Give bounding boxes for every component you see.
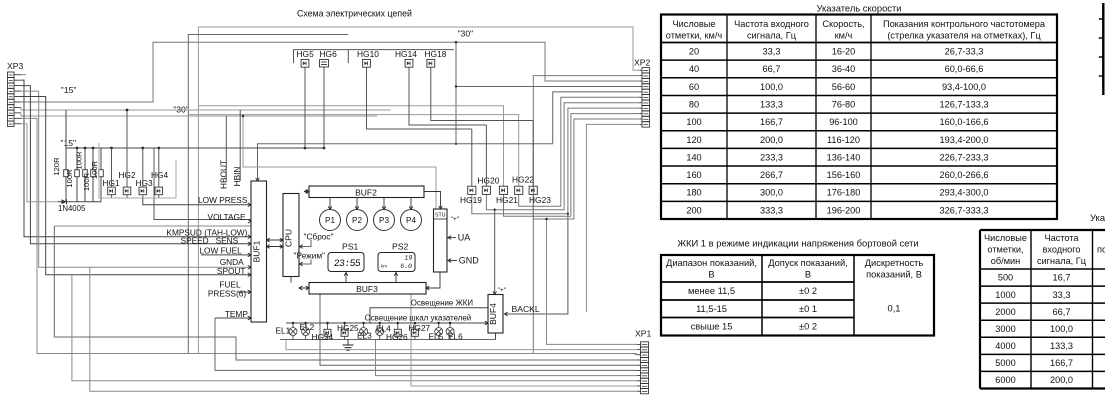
svg-text:HG19: HG19 bbox=[460, 195, 482, 205]
wire HG14 down bbox=[409, 67, 486, 125]
wire bus y42 (XP3 pin6 via x153 to XP2 pin3) bbox=[21, 42, 640, 102]
wire XP3 pin10 to diode rail bbox=[21, 124, 58, 202]
svg-text:HG10: HG10 bbox=[357, 49, 379, 59]
svg-text:126,7-133,3: 126,7-133,3 bbox=[939, 99, 988, 109]
svg-text:PS2: PS2 bbox=[392, 242, 408, 252]
svg-text:Диапазон показаний,: Диапазон показаний, bbox=[666, 258, 757, 268]
wire bus y114 to HG22 bbox=[188, 115, 518, 187]
svg-text:166,7: 166,7 bbox=[1050, 358, 1073, 368]
wire XP2 pin7 to HG20 bottom bbox=[486, 103, 640, 210]
wire EL1 stubs bbox=[292, 323, 294, 327]
table2 grid bbox=[661, 255, 934, 336]
arrow into BUF1 top bbox=[256, 178, 260, 181]
svg-text:отметки,: отметки, bbox=[987, 245, 1023, 255]
connector XP3 bbox=[8, 72, 15, 77]
wire LOW FUEL bbox=[201, 254, 251, 256]
svg-text:"15": "15" bbox=[61, 85, 77, 95]
wire LOW PRESS bbox=[143, 198, 251, 205]
junction dot BACKL nest bbox=[567, 213, 569, 215]
led HG26 bbox=[394, 329, 401, 336]
junction dot bbox=[92, 147, 95, 150]
svg-text:100R: 100R bbox=[75, 151, 84, 170]
svg-text:HG24: HG24 bbox=[312, 332, 334, 342]
junction dot 30 wire bbox=[455, 41, 458, 44]
resistor 100R d bbox=[100, 148, 102, 170]
wire diode rail bbox=[58, 201, 101, 203]
svg-text:(стрелка указателя на отметках: (стрелка указателя на отметках), Гц bbox=[887, 31, 1041, 41]
svg-text:отметки, км/ч: отметки, км/ч bbox=[666, 31, 723, 41]
svg-text:"+": "+" bbox=[498, 287, 507, 294]
wire FUEL PRESS bbox=[238, 291, 251, 293]
svg-text:"+": "+" bbox=[451, 216, 460, 223]
svg-text:23:55: 23:55 bbox=[333, 258, 361, 269]
wire BUF1-CPU bus b bbox=[267, 246, 284, 248]
wire BUF4 feed bbox=[494, 210, 496, 295]
svg-text:P4: P4 bbox=[406, 216, 416, 225]
svg-text:120R: 120R bbox=[52, 157, 61, 176]
arrow into BUF1 bbox=[248, 242, 251, 246]
svg-text:93,4-100,0: 93,4-100,0 bbox=[942, 82, 986, 92]
wire top lamps header bbox=[294, 50, 454, 64]
wire HG6 down bbox=[323, 67, 325, 148]
wire lamp bottom rail bbox=[280, 339, 496, 341]
led HG22 bbox=[515, 186, 523, 194]
svg-text:200: 200 bbox=[686, 205, 701, 215]
svg-text:80: 80 bbox=[689, 99, 699, 109]
svg-text:SPEED SENS: SPEED SENS bbox=[181, 236, 239, 246]
svg-text:133,3: 133,3 bbox=[1050, 341, 1073, 351]
wire HG4 bottom bbox=[158, 195, 160, 198]
svg-text:Скорость,: Скорость, bbox=[822, 19, 864, 29]
wire XP3 pin9 bottom bus y353 bbox=[21, 118, 637, 353]
wire 30 vertical bbox=[455, 42, 457, 143]
wire bus y105 to HG21 bbox=[198, 106, 503, 186]
wire HG1 top bbox=[111, 148, 113, 187]
svg-text:20: 20 bbox=[689, 47, 699, 57]
svg-text:166,7: 166,7 bbox=[760, 117, 783, 127]
svg-text:"Режим": "Режим" bbox=[294, 251, 326, 261]
wire x90 to bus y391 bbox=[90, 267, 637, 391]
svg-text:3000: 3000 bbox=[995, 324, 1015, 334]
svg-text:HG22: HG22 bbox=[512, 175, 534, 185]
svg-text:P3: P3 bbox=[379, 216, 389, 225]
junction dot bbox=[76, 147, 79, 150]
wire CPU to BUF3 bbox=[290, 277, 292, 283]
wire TEMP vert to bus y370 bbox=[215, 318, 637, 370]
wire HG26 stubs bbox=[397, 323, 399, 329]
wire Режим arrow bbox=[300, 260, 312, 265]
wire HG23 up bbox=[532, 121, 534, 187]
wire XP2 pin10 to HG23 bottom bbox=[533, 119, 640, 219]
diode 1N4005 bbox=[62, 199, 67, 204]
wire HG10 down bbox=[367, 67, 472, 129]
svg-text:Освещение шкал указателей: Освещение шкал указателей bbox=[365, 313, 472, 322]
wire XP2 pin6 to HG22 bottom bbox=[519, 97, 640, 206]
svg-text:136-140: 136-140 bbox=[827, 152, 861, 162]
svg-text:"15": "15" bbox=[60, 138, 76, 148]
wire EL2 stubs bbox=[305, 323, 307, 327]
svg-text:BUF1: BUF1 bbox=[252, 240, 262, 262]
junction dot 30 vertical at BUF1 feed bbox=[455, 143, 457, 145]
svg-text:"30": "30" bbox=[458, 29, 474, 39]
svg-text:HG21: HG21 bbox=[496, 195, 518, 205]
svg-text:BUF4: BUF4 bbox=[488, 303, 498, 325]
arrow into BUF1 bbox=[248, 203, 251, 207]
wire lamp bottom rail left to bus y349 bbox=[286, 340, 637, 350]
svg-text:Допуск показаний,: Допуск показаний, bbox=[768, 258, 848, 268]
svg-text:233,3: 233,3 bbox=[760, 152, 783, 162]
svg-text:км/ч: км/ч bbox=[835, 31, 853, 41]
lamp HG10 bbox=[363, 59, 371, 67]
svg-text:EL5: EL5 bbox=[429, 332, 444, 342]
svg-text:100,0: 100,0 bbox=[760, 82, 783, 92]
svg-text:176-180: 176-180 bbox=[827, 188, 861, 198]
svg-text:менее 11,5: менее 11,5 bbox=[688, 286, 735, 296]
svg-text:76-80: 76-80 bbox=[832, 99, 856, 109]
lamp HG3 bbox=[139, 187, 147, 195]
svg-text:26,7-33,3: 26,7-33,3 bbox=[945, 47, 984, 57]
svg-text:2000: 2000 bbox=[995, 307, 1015, 317]
indicator P4 bbox=[401, 210, 422, 231]
lamp HG2 bbox=[123, 187, 131, 195]
svg-text:VOLTAGE: VOLTAGE bbox=[208, 212, 246, 222]
svg-text:HG14: HG14 bbox=[395, 49, 417, 59]
led HG23 bbox=[529, 186, 537, 194]
wire top lamps header right bbox=[347, 50, 349, 64]
svg-text:P1: P1 bbox=[325, 216, 335, 225]
wire HG4 top bbox=[158, 148, 160, 187]
svg-text:11,5-15: 11,5-15 bbox=[696, 304, 727, 314]
svg-text:EL1: EL1 bbox=[276, 326, 291, 336]
wire HG27 stubs bbox=[414, 323, 416, 329]
display PS2 bbox=[378, 253, 415, 272]
led HG19 bbox=[468, 186, 476, 194]
wire BUF2 to P2 bbox=[356, 198, 358, 210]
led HG24 bbox=[324, 329, 331, 336]
wire SPEED from XP3 pin3 bbox=[21, 86, 251, 244]
table1 grid bbox=[661, 15, 1057, 220]
wire x72 to bus y381 bbox=[72, 275, 637, 381]
svg-text:6.0: 6.0 bbox=[400, 263, 413, 270]
svg-text:Схема электрических цепей: Схема электрических цепей bbox=[297, 9, 412, 19]
wire EL5 stubs bbox=[438, 323, 440, 327]
svg-text:4000: 4000 bbox=[995, 341, 1015, 351]
resistor 120R bbox=[65, 148, 67, 170]
junction dot bbox=[323, 147, 326, 150]
svg-text:Числовые: Числовые bbox=[672, 19, 715, 29]
wire SPOUT from XP3 pin5 bbox=[21, 97, 251, 275]
wire HG25 stubs bbox=[344, 323, 346, 329]
wire VOLTAGE from 15 bus bbox=[154, 148, 251, 220]
svg-text:BACKL: BACKL bbox=[512, 304, 540, 314]
svg-text:60,0-66,6: 60,0-66,6 bbox=[945, 64, 984, 74]
svg-text:сигнала, Гц: сигнала, Гц bbox=[747, 31, 797, 41]
svg-text:100: 100 bbox=[686, 117, 701, 127]
block BUF4 bbox=[488, 295, 503, 334]
wire HBOUT bbox=[225, 116, 227, 181]
block STU bbox=[434, 209, 448, 272]
svg-text:193,4-200,0: 193,4-200,0 bbox=[939, 135, 988, 145]
wire bottom rail to bus y375 bbox=[376, 340, 638, 376]
svg-text:56-60: 56-60 bbox=[832, 82, 856, 92]
svg-text:100R: 100R bbox=[90, 160, 99, 179]
wire BUF3 to PS1 bbox=[345, 272, 347, 283]
wire XP2 pin4 to 30 vertical bbox=[456, 85, 640, 87]
arrow into BUF1 bbox=[248, 316, 251, 320]
svg-text:96-100: 96-100 bbox=[829, 117, 858, 127]
wire Освещение ЖКИ bbox=[370, 308, 488, 323]
svg-text:Ука: Ука bbox=[1090, 212, 1105, 223]
junction dot bbox=[110, 147, 113, 150]
svg-text:36-40: 36-40 bbox=[832, 64, 856, 74]
lamp EL3 bbox=[360, 328, 368, 336]
wire BUF1-CPU bus a bbox=[267, 239, 284, 241]
svg-text:156-160: 156-160 bbox=[827, 170, 861, 180]
svg-text:116-120: 116-120 bbox=[827, 135, 860, 145]
wire XP2 pin2 long to XP1 area bbox=[533, 76, 640, 354]
wire XP2 pin8 to HG19 bottom bbox=[472, 108, 640, 214]
svg-text:66,7: 66,7 bbox=[1053, 307, 1071, 317]
svg-text:0,1: 0,1 bbox=[888, 304, 901, 314]
svg-text:260,0-266,6: 260,0-266,6 bbox=[939, 170, 988, 180]
wire EL6 stubs bbox=[449, 323, 451, 327]
wire EL4 stubs bbox=[379, 323, 381, 327]
svg-text:293,4-300,0: 293,4-300,0 bbox=[939, 188, 988, 198]
wire XP1 pin3 stub bbox=[633, 354, 637, 355]
table4 edge sliver bbox=[1102, 3, 1104, 95]
svg-text:об/мин: об/мин bbox=[991, 256, 1020, 266]
svg-text:"Сброс": "Сброс" bbox=[304, 232, 334, 242]
wire BUF2 to P1 bbox=[329, 198, 331, 210]
table3 grid bbox=[979, 230, 981, 389]
svg-text:5000: 5000 bbox=[995, 358, 1015, 368]
connector XP1 bbox=[641, 342, 649, 347]
arrow BACKL into BUF4 bbox=[504, 312, 507, 316]
resistor 100R c bbox=[92, 148, 94, 170]
svg-text:BUF2: BUF2 bbox=[355, 188, 377, 198]
svg-text:по: по bbox=[1097, 245, 1105, 255]
svg-text:16,7: 16,7 bbox=[1053, 273, 1071, 283]
wire BUF3 right to bus y386 bbox=[411, 294, 637, 386]
svg-text:BUF3: BUF3 bbox=[356, 284, 378, 294]
svg-text:свыше 15: свыше 15 bbox=[691, 322, 733, 332]
wire GND stub bbox=[447, 260, 458, 262]
lamp HG5 bbox=[301, 59, 309, 67]
svg-text:сигнала, Гц: сигнала, Гц bbox=[1037, 256, 1087, 266]
wire BUF4 to bottom rail bbox=[495, 333, 497, 340]
svg-text:333,3: 333,3 bbox=[760, 205, 783, 215]
svg-text:160,0-166,6: 160,0-166,6 bbox=[939, 117, 988, 127]
resistor 100R a bbox=[76, 148, 78, 170]
svg-text:226,7-233,3: 226,7-233,3 bbox=[939, 152, 988, 162]
wire nest to XP1 pin1 bbox=[547, 219, 638, 344]
svg-text:HG18: HG18 bbox=[425, 49, 447, 59]
junction dot bbox=[141, 147, 144, 150]
svg-text:CPU: CPU bbox=[284, 229, 294, 247]
svg-text:66,7: 66,7 bbox=[763, 64, 781, 74]
svg-text:ЖКИ 1 в режиме индикации напря: ЖКИ 1 в режиме индикации напряжения борт… bbox=[677, 238, 918, 249]
svg-text:133,3: 133,3 bbox=[760, 99, 783, 109]
svg-text:LOW FUEL: LOW FUEL bbox=[199, 246, 242, 256]
junction dot bbox=[304, 147, 307, 150]
wire bus y116 from XP3 bbox=[21, 113, 377, 116]
svg-text:Частота: Частота bbox=[1044, 233, 1079, 243]
wire XP2 pin9 to HG21 bottom bbox=[504, 114, 641, 217]
wire GNDA from XP3 pin4 bbox=[21, 91, 251, 267]
svg-text:km: km bbox=[381, 264, 387, 269]
svg-text:В: В bbox=[805, 270, 811, 280]
svg-text:±0 2: ±0 2 bbox=[799, 322, 817, 332]
lamp HG14 bbox=[405, 59, 413, 67]
arrow into BUF1 bbox=[248, 220, 251, 224]
wire enclosure bottom bbox=[99, 143, 176, 198]
led HG27 bbox=[411, 329, 418, 336]
wire HG18 down bbox=[431, 67, 533, 120]
svg-text:Освещение ЖКИ: Освещение ЖКИ bbox=[411, 299, 474, 308]
arrow into BUF1 bbox=[248, 265, 251, 269]
wire bus y110 from XP3 bbox=[21, 107, 391, 110]
svg-text:140: 140 bbox=[686, 152, 701, 162]
wire Сброс arrow bbox=[300, 240, 312, 247]
wire BUF3 to PS2 bbox=[395, 272, 397, 283]
svg-text:160: 160 bbox=[686, 170, 701, 180]
display PS1 bbox=[328, 253, 364, 272]
junction dot BUF4 feed bbox=[494, 209, 496, 211]
svg-text:326,7-333,3: 326,7-333,3 bbox=[939, 205, 988, 215]
svg-text:Показания контрольного частото: Показания контрольного частотомера bbox=[883, 19, 1046, 29]
ground symbol bbox=[347, 340, 349, 346]
svg-text:XP1: XP1 bbox=[635, 329, 651, 339]
connector XP2 bbox=[642, 68, 650, 73]
arrow into BUF1 bbox=[248, 253, 251, 257]
block BUF2 bbox=[309, 186, 424, 198]
wire UA stub bbox=[447, 237, 457, 239]
block BUF3 bbox=[309, 283, 426, 295]
led HG21 bbox=[499, 186, 507, 194]
svg-text:40: 40 bbox=[689, 64, 699, 74]
lamp EL4 bbox=[376, 328, 384, 336]
lamp HG4 bbox=[155, 187, 163, 195]
svg-text:100,0: 100,0 bbox=[1050, 324, 1073, 334]
svg-text:GND: GND bbox=[459, 256, 480, 266]
lamp EL6 bbox=[446, 328, 454, 336]
lamp HG6 bbox=[320, 60, 329, 68]
svg-text:SPOUT: SPOUT bbox=[217, 266, 246, 276]
wire BUF2 to P3 bbox=[383, 198, 385, 210]
svg-text:266,7: 266,7 bbox=[760, 170, 783, 180]
wire XP2 pin11 stub down bbox=[586, 124, 640, 312]
svg-text:XP3: XP3 bbox=[7, 61, 23, 71]
wire STU to BUF3 bbox=[426, 272, 440, 288]
svg-text:входного: входного bbox=[1042, 245, 1080, 255]
wire BACKL from nest to BUF4 bbox=[504, 214, 568, 314]
svg-text:196-200: 196-200 bbox=[827, 205, 861, 215]
wire HG5 down bbox=[304, 67, 306, 148]
svg-text:±0 1: ±0 1 bbox=[799, 304, 817, 314]
lamp EL5 bbox=[435, 328, 443, 336]
svg-text:120: 120 bbox=[686, 135, 701, 145]
wire BUF2 to STU bbox=[424, 192, 441, 210]
svg-text:XP2: XP2 bbox=[634, 58, 650, 68]
svg-text:HG4: HG4 bbox=[151, 170, 168, 180]
svg-text:200,0: 200,0 bbox=[1050, 375, 1073, 385]
svg-text:UA: UA bbox=[458, 233, 471, 243]
svg-text:Указатель скорости: Указатель скорости bbox=[816, 3, 901, 14]
svg-text:В: В bbox=[708, 270, 714, 280]
wire 15 bus bbox=[66, 110, 324, 148]
svg-text:33,3: 33,3 bbox=[763, 47, 781, 57]
wire HG1 bottom bbox=[111, 195, 113, 198]
junction dot HG2 bbox=[126, 109, 129, 112]
arrow into BUF1 bbox=[248, 290, 251, 294]
wire HG20 up bbox=[485, 125, 487, 186]
wire bus 30 top y27 (x198 to XP2 pin1) bbox=[198, 27, 640, 354]
svg-text:100R: 100R bbox=[65, 169, 74, 188]
svg-text:HG6: HG6 bbox=[320, 49, 338, 59]
wire KMPSUD from XP3 pin2 bbox=[21, 80, 251, 237]
svg-text:6000: 6000 bbox=[995, 375, 1015, 385]
svg-text:LOW PRESS: LOW PRESS bbox=[198, 195, 248, 205]
wire XP3 pin1 stub bbox=[21, 74, 26, 76]
svg-text:200,0: 200,0 bbox=[760, 135, 783, 145]
svg-text:300,0: 300,0 bbox=[760, 188, 783, 198]
svg-text:1N4005: 1N4005 bbox=[58, 204, 86, 213]
wire x54 jog bus y360 bbox=[54, 226, 637, 360]
wire HG3 top bbox=[142, 148, 144, 187]
svg-text:HG5: HG5 bbox=[297, 49, 315, 59]
svg-text:1000: 1000 bbox=[995, 290, 1015, 300]
wire bus y34 (x188, ends near lamp box) bbox=[188, 35, 348, 354]
svg-text:Частота входного: Частота входного bbox=[734, 19, 809, 29]
wire XP2 pin5 BUF1 feed bbox=[258, 92, 641, 181]
wire HBIN bbox=[239, 110, 241, 181]
svg-text:STU: STU bbox=[435, 213, 446, 219]
svg-text:Дискретность: Дискретность bbox=[865, 258, 924, 268]
arrow into BUF1 bbox=[248, 235, 251, 239]
svg-text:500: 500 bbox=[998, 273, 1013, 283]
wire HG2 top bbox=[126, 110, 128, 187]
lamp HG1 bbox=[108, 187, 116, 195]
svg-text:Числовые: Числовые bbox=[984, 233, 1027, 243]
svg-text:180: 180 bbox=[686, 188, 701, 198]
wire HG3 bottom bbox=[142, 195, 144, 198]
wire HG2 bottom bbox=[126, 195, 128, 198]
svg-text:PRESS(6): PRESS(6) bbox=[208, 288, 247, 298]
block BUF1 bbox=[251, 181, 267, 322]
wire HG19 up bbox=[471, 129, 473, 186]
svg-text:HG20: HG20 bbox=[478, 175, 500, 185]
svg-text:±0 2: ±0 2 bbox=[799, 286, 817, 296]
indicator P1 bbox=[320, 210, 341, 231]
wire y167 to STU top bbox=[243, 116, 436, 209]
wire BUF2 to P4 bbox=[410, 198, 412, 210]
arrow into BUF1 bbox=[248, 273, 251, 277]
svg-text:показаний, В: показаний, В bbox=[866, 270, 922, 280]
svg-text:TEMP: TEMP bbox=[225, 309, 249, 319]
lamp EL2 bbox=[302, 328, 310, 336]
wire y226 into BUF1 bbox=[54, 225, 251, 227]
wire CPU to BUF2 bbox=[304, 191, 309, 193]
indicator P2 bbox=[347, 210, 368, 231]
wire lamp top rail bbox=[286, 322, 488, 324]
resistor 100R b bbox=[84, 148, 86, 170]
wire HG24 stubs bbox=[327, 323, 329, 329]
junction dot bbox=[84, 147, 87, 150]
led HG25 bbox=[341, 329, 348, 336]
svg-text:16-20: 16-20 bbox=[832, 47, 856, 57]
wire BUF3 bottom to bus y365 bbox=[320, 294, 637, 365]
lamp HG18 bbox=[427, 59, 435, 67]
